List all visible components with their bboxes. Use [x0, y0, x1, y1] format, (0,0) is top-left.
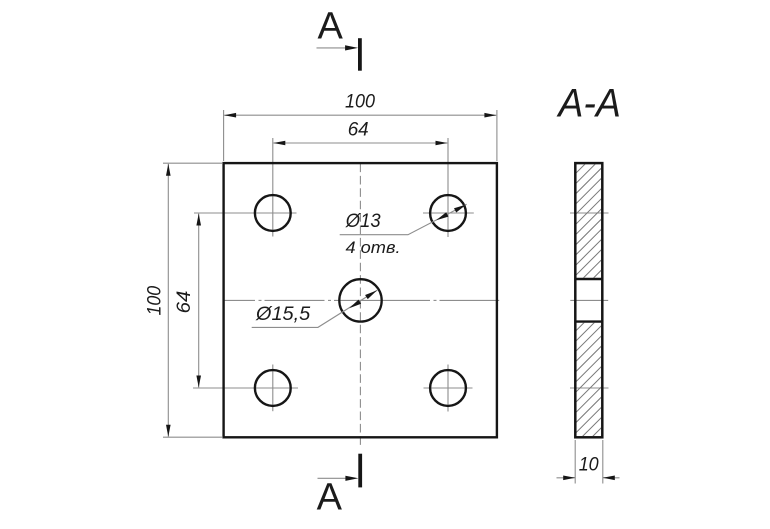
- dimension 100 (top): extension lines: [224, 110, 497, 161]
- dimension 64 (top): dimension line with arrows: [273, 141, 447, 146]
- svg-text:4 отв.: 4 отв.: [346, 238, 401, 257]
- centerline cross of top-right hole: [423, 138, 474, 237]
- svg-text:A: A: [317, 477, 343, 519]
- centerline cross of top-left hole: [194, 138, 297, 237]
- dimension 64 (left): value label (rotated): [174, 291, 195, 314]
- section: center hole cut edge (bottom): [575, 320, 602, 322]
- section: centerline at center hole level: [570, 299, 608, 301]
- svg-text:Ø15,5: Ø15,5: [255, 304, 311, 325]
- svg-text:A: A: [318, 6, 344, 48]
- label 4 otv.: [346, 238, 401, 257]
- diameter arrows inside top-right hole: [436, 205, 466, 221]
- dimension 100 (left): dimension line with arrows: [166, 164, 171, 437]
- dimension 100 (left): extension lines: [163, 163, 222, 437]
- section: centerline at top hole level: [570, 212, 609, 214]
- dimension 64 (top): value label: [348, 119, 369, 140]
- dimension 100 (top): value label: [345, 92, 375, 113]
- svg-text:64: 64: [174, 291, 195, 314]
- section: center hole cut edge (top): [575, 278, 602, 280]
- leader line for Ø15,5 callout (shoulder + diagonal into center hole): [252, 290, 378, 327]
- svg-text:Ø13: Ø13: [345, 211, 381, 232]
- hole top-left (Ø13): [255, 195, 291, 231]
- dimension 10: value label: [579, 455, 599, 476]
- section title A-A: [556, 81, 620, 125]
- diameter arrows inside center hole: [349, 290, 377, 308]
- svg-text:100: 100: [145, 285, 166, 315]
- dimension 10: dimension line with outside arrows: [557, 476, 620, 481]
- vertical centerline (dashed) of plate through center hole: [359, 164, 361, 447]
- centerline cross of bottom-right hole: [424, 365, 473, 412]
- leader line for Ø13 callout (shoulder + diagonal into top-right hole): [340, 204, 467, 235]
- dimension 10: extension lines: [575, 440, 603, 484]
- svg-text:64: 64: [348, 119, 369, 140]
- svg-text:100: 100: [345, 92, 375, 113]
- section cut mark bottom: arrow: [318, 476, 359, 481]
- label Ø13: [345, 211, 381, 232]
- dimension 100 (top): dimension line with arrows: [224, 113, 496, 118]
- dimension 100 (left): value label (rotated): [145, 285, 166, 315]
- center hole (Ø15,5): [339, 279, 381, 321]
- section hatching (lower band): [575, 294, 603, 455]
- section outline rectangle: [575, 163, 602, 437]
- section: centerline at bottom hole level: [570, 387, 609, 389]
- dimension 64 (left): dimension line with arrows: [196, 214, 201, 388]
- plate outline (square 100x100): [224, 163, 497, 437]
- section cut mark top: arrow: [317, 45, 359, 50]
- hole bottom-right (Ø13): [430, 370, 466, 406]
- section hatching (upper band): [575, 136, 603, 297]
- section cut mark bottom: letter A: [317, 477, 343, 519]
- centerline cross of bottom-left hole: [193, 365, 298, 412]
- section cut mark top: letter A: [318, 6, 344, 48]
- section cut mark top: thick bar: [358, 38, 362, 70]
- horizontal centerline (dash-dot) through center hole: [223, 299, 499, 301]
- svg-text:10: 10: [579, 455, 599, 476]
- section cut mark bottom: thick bar: [358, 454, 362, 488]
- hole top-right (Ø13): [430, 195, 466, 231]
- svg-text:A-A: A-A: [556, 81, 620, 125]
- label Ø15,5: [255, 304, 311, 325]
- hole bottom-left (Ø13): [255, 370, 291, 406]
